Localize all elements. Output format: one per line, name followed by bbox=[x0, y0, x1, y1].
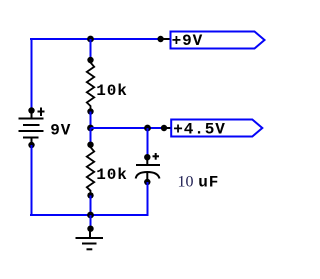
node ground junction bbox=[87, 212, 94, 219]
svg-text:10: 10 bbox=[178, 174, 194, 191]
node cap branch junction bbox=[144, 125, 151, 132]
battery V1 bbox=[19, 107, 45, 148]
capacitor C1 bbox=[136, 153, 160, 185]
wire top junction to R1 bbox=[90, 39, 92, 60]
svg-text:10k: 10k bbox=[96, 166, 128, 184]
wire battery to bottom rail bbox=[31, 145, 33, 216]
wire R1 to mid junction bbox=[90, 112, 92, 129]
svg-text:10k: 10k bbox=[96, 82, 128, 100]
label R2 value 10k bbox=[96, 166, 128, 184]
resistor R2 bbox=[87, 142, 94, 199]
node mid junction bbox=[87, 125, 94, 132]
label R1 value 10k bbox=[96, 82, 128, 100]
flag +9V terminal dot bbox=[157, 36, 163, 42]
label C1 value 10 uF bbox=[178, 174, 220, 192]
wire top rail bbox=[30, 38, 161, 40]
svg-text:+4.5V: +4.5V bbox=[173, 121, 226, 139]
wire ground stub bbox=[90, 215, 92, 229]
wire mid rail bbox=[91, 127, 165, 129]
flag +9V lead bbox=[161, 38, 171, 40]
wire cap to bottom rail bbox=[147, 182, 149, 216]
node top junction bbox=[87, 36, 94, 43]
ground bbox=[76, 226, 104, 250]
wire R2 to bottom rail bbox=[90, 195, 92, 215]
wire left vertical bbox=[31, 38, 33, 110]
resistor R1 bbox=[87, 57, 94, 115]
wire cap branch down bbox=[147, 128, 149, 157]
flag +4.5V bbox=[171, 120, 262, 139]
flag +4.5V terminal dot bbox=[161, 125, 167, 131]
svg-text:+9V: +9V bbox=[172, 32, 204, 50]
flag +9V bbox=[171, 32, 265, 51]
flag +4.5V lead bbox=[164, 127, 172, 129]
wire mid junction to R2 bbox=[90, 128, 92, 145]
battery value 9V bbox=[50, 122, 71, 140]
svg-text:9V: 9V bbox=[50, 122, 71, 140]
wire bottom rail bbox=[30, 214, 149, 216]
svg-text:uF: uF bbox=[198, 174, 219, 192]
